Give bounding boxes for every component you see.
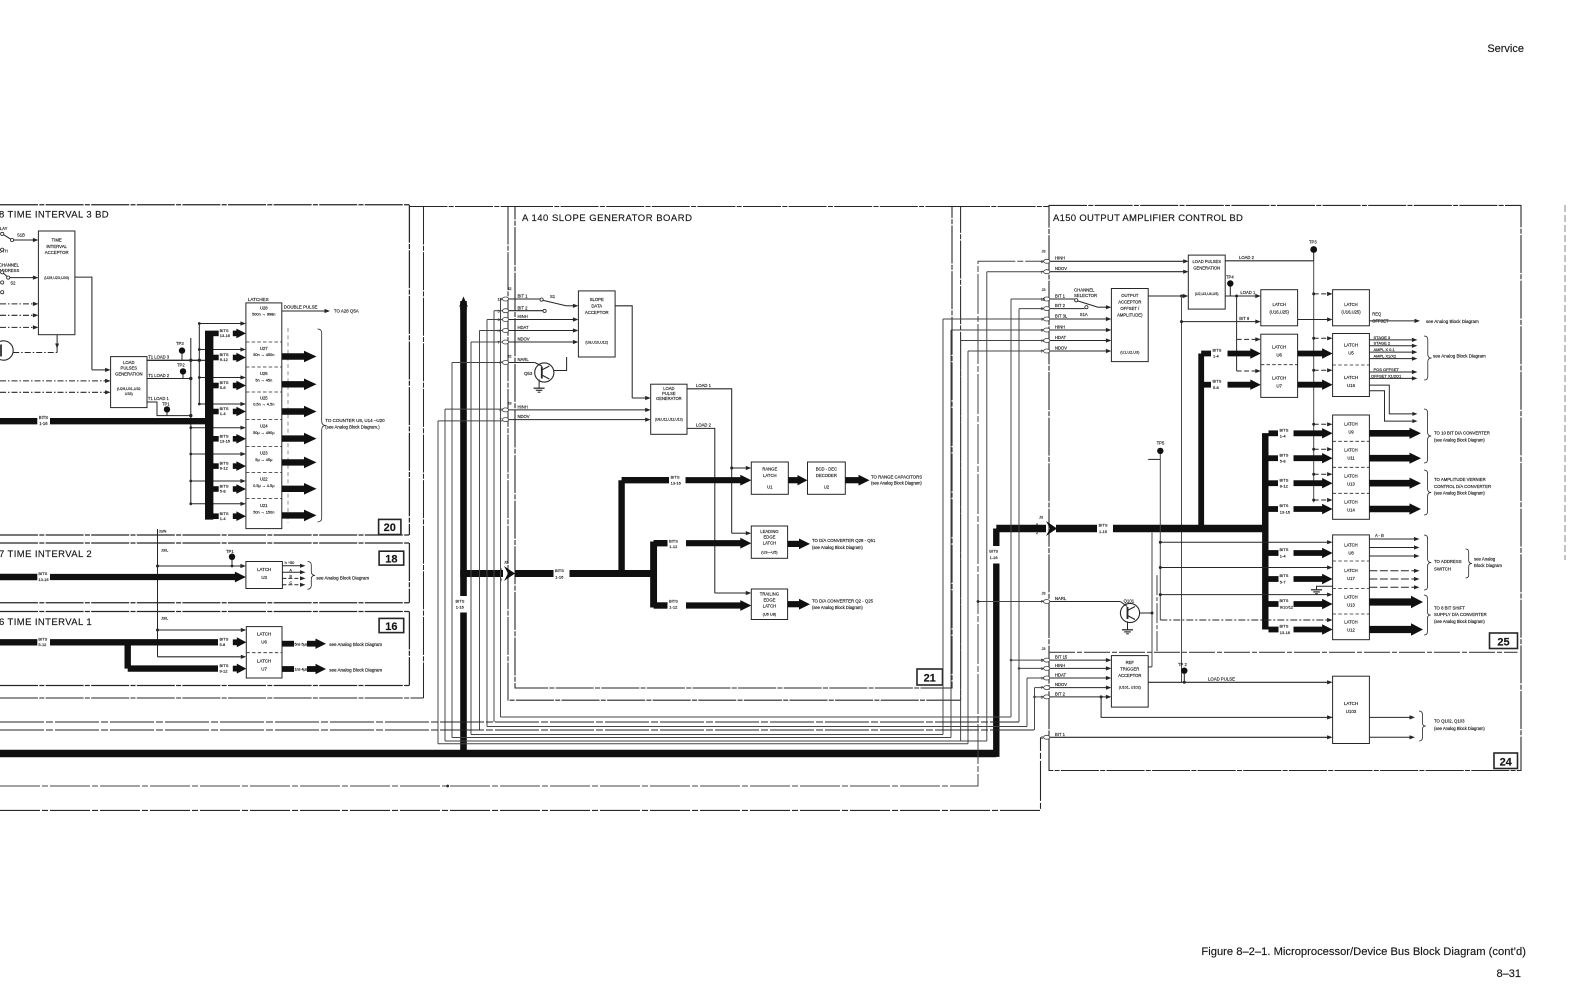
enable stub from TP3 rail — [1314, 293, 1328, 295]
latch U9 U11 outputs to 10 bit DAC — [1369, 430, 1411, 437]
brace TO 10 BIT D/A CONVERTER — [1424, 409, 1431, 463]
bus riser to range latch — [618, 480, 624, 576]
svg-text:BITS: BITS — [1280, 428, 1289, 433]
svg-text:5: 5 — [1041, 307, 1043, 311]
svg-text:1-16: 1-16 — [456, 605, 465, 610]
svg-text:1-16: 1-16 — [1099, 529, 1108, 534]
svg-text:(U3—U5): (U3—U5) — [761, 550, 778, 555]
svg-text:EDGE: EDGE — [764, 597, 776, 602]
svg-text:20: 20 — [384, 522, 396, 534]
svg-text:STAGE 2: STAGE 2 — [1374, 341, 1391, 346]
test point TP2 — [180, 368, 186, 374]
svg-text:1-4: 1-4 — [1213, 354, 1220, 359]
svg-text:1-4: 1-4 — [220, 411, 227, 416]
svg-text:6: 6 — [1041, 667, 1043, 671]
svg-text:(see Analog Block Diagram): (see Analog Block Diagram) — [871, 481, 922, 486]
latch output thick arrows to counter — [287, 328, 289, 523]
svg-text:J3: J3 — [1042, 250, 1046, 254]
right page margin line — [1564, 205, 1566, 560]
bus riser to edge latches — [650, 542, 657, 608]
svg-text:(see Analog Block Diagram): (see Analog Block Diagram) — [1434, 619, 1485, 624]
svg-text:SLOPE: SLOPE — [590, 297, 604, 302]
svg-text:TO COUNTER U8, U14 –U20: TO COUNTER U8, U14 –U20 — [325, 418, 385, 423]
svg-text:U11: U11 — [1347, 456, 1355, 461]
svg-text:SELECTOR: SELECTOR — [1074, 293, 1097, 298]
svg-text:U103: U103 — [1346, 709, 1357, 714]
svg-text:(U29,U31,U32: (U29,U31,U32 — [117, 387, 141, 391]
svg-text:J3: J3 — [508, 402, 512, 406]
svg-text:J3/L: J3/L — [161, 549, 168, 553]
svg-text:(U8,U10,U12): (U8,U10,U12) — [585, 340, 608, 344]
svg-text:LATCH: LATCH — [1344, 422, 1357, 427]
svg-text:J3: J3 — [1039, 516, 1043, 520]
svg-text:BIT 1: BIT 1 — [1055, 732, 1066, 737]
nested frame around A140 — [508, 207, 961, 701]
svg-text:J3: J3 — [1042, 592, 1046, 596]
wire Q101 collector to ref trigger acceptor — [1140, 612, 1152, 614]
svg-text:RANGE: RANGE — [762, 467, 777, 472]
svg-text:U2: U2 — [824, 485, 830, 490]
svg-text:(U101, U102): (U101, U102) — [1119, 685, 1141, 689]
svg-text:Q101: Q101 — [1124, 598, 1135, 603]
svg-text:(U29,U23,U30): (U29,U23,U30) — [44, 276, 69, 280]
bottom horizontal wires — [501, 716, 1012, 718]
svg-text:SUPPLY D/A CONVERTER: SUPPLY D/A CONVERTER — [1434, 612, 1487, 617]
svg-text:5-8: 5-8 — [1213, 385, 1220, 390]
svg-text:BITS: BITS — [989, 549, 998, 554]
section number box 16 — [379, 618, 404, 632]
svg-text:1-4: 1-4 — [220, 516, 227, 521]
bus branch BITS 9-12 into latch — [213, 355, 219, 361]
svg-text:LATCH: LATCH — [1272, 344, 1286, 349]
svg-text:U13: U13 — [1347, 602, 1355, 607]
svg-text:NDOV: NDOV — [518, 414, 530, 419]
svg-text:NARL: NARL — [1055, 596, 1067, 601]
switch S1 — [509, 298, 540, 300]
svg-text:(see Analog Block Diagram): (see Analog Block Diagram) — [1434, 438, 1485, 443]
block LATCH U16 U25 second — [1333, 290, 1370, 326]
svg-text:A 140 SLOPE GENERATOR BOAR: A 140 SLOPE GENERATOR BOARD — [522, 213, 692, 224]
board A1x7 TIME INTERVAL 2 outline — [0, 542, 409, 544]
block REF TRIGGER ACCEPTOR U101 U102 — [1111, 656, 1148, 708]
svg-text:HINH: HINH — [518, 314, 528, 319]
svg-text:see Analog Block Diagram: see Analog Block Diagram — [316, 575, 369, 580]
svg-text:see Analog Block Diagram: see Analog Block Diagram — [329, 642, 382, 647]
bus branch BITS 13-16 to range latch — [622, 477, 669, 483]
block RANGE LATCH U1 — [751, 462, 788, 494]
stubs to ref trigger pins — [1011, 659, 1044, 661]
svg-text:15: 15 — [1041, 298, 1045, 302]
svg-text:U21: U21 — [260, 503, 268, 508]
svg-text:LATCH: LATCH — [257, 567, 271, 572]
svg-text:LATCH: LATCH — [1344, 542, 1357, 547]
svg-text:HDAT: HDAT — [1055, 673, 1067, 678]
svg-text:U3: U3 — [261, 575, 267, 580]
svg-text:BIT 3L: BIT 3L — [1055, 314, 1068, 319]
test point TP4 — [1227, 280, 1233, 286]
svg-text:BIT 2: BIT 2 — [1055, 692, 1066, 697]
right wire bundle verticals — [942, 319, 944, 735]
block TRAILING EDGE LATCH U6-U8 — [751, 589, 787, 620]
svg-text:LATCH: LATCH — [1344, 448, 1357, 453]
svg-text:Q53: Q53 — [524, 371, 533, 376]
svg-text:TO Q102, Q103: TO Q102, Q103 — [1434, 718, 1465, 723]
brace outputs TO COUNTER U8 U14-U20 — [318, 329, 326, 522]
left wire bundle verticals — [500, 299, 502, 717]
svg-text:BITS: BITS — [669, 599, 678, 604]
svg-text:NDOV: NDOV — [518, 337, 530, 342]
latch enable distribution wires — [198, 324, 200, 405]
section 25 inner frame — [1156, 575, 1158, 652]
svg-text:REQ: REQ — [1372, 312, 1381, 317]
svg-text:BIT 2: BIT 2 — [518, 305, 529, 310]
ground below Q53 — [538, 379, 540, 388]
svg-text:DOUBLE PULSE: DOUBLE PULSE — [284, 304, 318, 309]
transistor Q101 — [1120, 603, 1139, 622]
wires latch U16 to 10 bit converter group — [1369, 385, 1413, 414]
svg-text:7: 7 — [1041, 270, 1043, 274]
svg-text:(U16,U25): (U16,U25) — [1270, 310, 1290, 315]
block LATCH U103 — [1333, 676, 1370, 743]
svg-text:BITS: BITS — [1099, 523, 1108, 528]
svg-text:U7: U7 — [261, 667, 267, 672]
svg-text:BITS: BITS — [555, 568, 564, 573]
svg-text:5-8: 5-8 — [1280, 459, 1287, 464]
svg-text:ACCEPTOR: ACCEPTOR — [1118, 300, 1141, 305]
svg-text:CHANNEL: CHANNEL — [0, 263, 20, 268]
bus trailing edge latch output TO D/A CONVERTER Q2-Q25 — [788, 601, 801, 607]
top frame connector segments — [409, 206, 515, 208]
svg-text:HDAT: HDAT — [518, 325, 530, 330]
svg-text:TP5: TP5 — [1157, 441, 1165, 446]
bus branch down to latch U7 — [124, 642, 130, 668]
svg-text:TP1: TP1 — [162, 402, 170, 407]
block TIME INTERVAL ACCEPTOR U29 U23 U30 — [38, 231, 75, 335]
transistor Q53 — [535, 363, 554, 382]
block OUTPUT ACCEPTOR OFFSET AMPLITUDE U1 U2 U3 — [1111, 289, 1148, 362]
svg-text:9-12: 9-12 — [220, 466, 229, 471]
svg-text:SWITCH: SWITCH — [1434, 567, 1451, 572]
svg-text:J3: J3 — [1042, 647, 1046, 651]
svg-text:U14: U14 — [1347, 508, 1355, 513]
svg-text:1-16: 1-16 — [990, 555, 999, 560]
enable wires into latches U6 U7 — [158, 629, 242, 631]
svg-text:T1 LOAD 1: T1 LOAD 1 — [148, 396, 170, 401]
latch feed vertical bus — [205, 331, 213, 520]
svg-text:(U1,U2,U3): (U1,U2,U3) — [1120, 351, 1140, 355]
svg-text:U33): U33) — [125, 392, 133, 396]
svg-text:DECODER: DECODER — [816, 473, 837, 478]
svg-text:NDOV: NDOV — [1055, 682, 1067, 687]
svg-text:OFFSET /: OFFSET / — [1120, 306, 1140, 311]
svg-text:see Analog Block Diagram: see Analog Block Diagram — [1433, 354, 1486, 359]
bus BITS 1-16 into latch column — [0, 418, 37, 424]
board A150 OUTPUT AMPLIFIER CONTROL outline — [1049, 205, 1521, 770]
wire NARL return line — [0, 261, 1044, 786]
svg-text:LOAD PULSE: LOAD PULSE — [1208, 676, 1235, 681]
svg-text:(U2,U3,U4,U5): (U2,U3,U4,U5) — [1195, 292, 1219, 296]
svg-text:U22: U22 — [260, 477, 268, 482]
vertical bus BITS 1-16 between boards — [460, 301, 467, 596]
svg-text:U17: U17 — [1347, 576, 1355, 581]
svg-text:OFFSET X1/2Q1: OFFSET X1/2Q1 — [1371, 373, 1402, 378]
svg-text:LATCH: LATCH — [1344, 474, 1357, 479]
svg-text:J3: J3 — [1042, 288, 1046, 292]
svg-text:U9: U9 — [1348, 430, 1354, 435]
ground stub at latch U17 — [1317, 586, 1333, 590]
svg-text:BITS: BITS — [220, 663, 229, 668]
svg-text:S1A: S1A — [1080, 312, 1088, 317]
svg-text:TP4: TP4 — [1226, 275, 1234, 280]
svg-text:U6: U6 — [261, 640, 267, 645]
svg-text:GENERATION: GENERATION — [1193, 265, 1220, 270]
svg-text:TIME: TIME — [52, 238, 62, 243]
bus branch BITS 5-8 into latch — [213, 486, 219, 492]
svg-text:A150 OUTPUT AMPLIFIER CONTR: A150 OUTPUT AMPLIFIER CONTROL BD — [1053, 213, 1243, 224]
svg-text:LOAD 1: LOAD 1 — [696, 383, 712, 388]
svg-text:DATA: DATA — [591, 304, 602, 309]
svg-text:TRAILING: TRAILING — [760, 592, 779, 597]
svg-text:CHANNEL: CHANNEL — [1074, 288, 1095, 293]
svg-text:50n → 450n: 50n → 450n — [253, 352, 274, 357]
wire S2 to acceptor — [10, 277, 34, 279]
svg-text:HINH: HINH — [1055, 663, 1065, 668]
block LATCH U9 U11 U13 U14 column — [1333, 415, 1370, 519]
svg-text:TP3: TP3 — [176, 341, 184, 346]
wires into output acceptor — [1050, 318, 1107, 320]
svg-text:S1: S1 — [550, 294, 556, 299]
svg-text:5-8: 5-8 — [220, 489, 227, 494]
svg-text:h ÷50: h ÷50 — [285, 560, 296, 565]
svg-text:13-16: 13-16 — [220, 438, 231, 443]
wire bus inputs into acceptor — [0, 303, 34, 305]
svg-text:LATCH: LATCH — [763, 541, 776, 546]
test point TP3 — [179, 347, 185, 353]
brace TO 8 BIT SHIFT SUPPLY — [1424, 595, 1431, 635]
svg-text:PULSES: PULSES — [121, 366, 138, 371]
bus branch BITS 1-12 to leading edge latch — [654, 540, 668, 546]
svg-text:HDAT: HDAT — [1055, 335, 1067, 340]
svg-text:AMPLITUDE): AMPLITUDE) — [1117, 313, 1143, 318]
svg-text:15: 15 — [498, 298, 502, 302]
svg-text:LATCHES: LATCHES — [248, 297, 269, 302]
board A1x6 TIME INTERVAL 1 outline — [0, 611, 409, 613]
svg-text:LOAD 2: LOAD 2 — [696, 423, 712, 428]
svg-text:LATCH: LATCH — [257, 659, 271, 664]
section number box 25 — [1490, 633, 1518, 649]
svg-text:J2: J2 — [508, 355, 512, 359]
svg-text:see Analog Block Diagram: see Analog Block Diagram — [329, 667, 382, 672]
svg-text:NDOV: NDOV — [1055, 346, 1067, 351]
svg-text:HINH: HINH — [1055, 255, 1065, 260]
svg-text:(U6 U8): (U6 U8) — [763, 611, 777, 616]
svg-text:U16: U16 — [1347, 383, 1356, 388]
svg-text:U24: U24 — [260, 423, 268, 428]
bus riser right of A140 — [993, 529, 999, 547]
svg-text:LOAD 1: LOAD 1 — [1240, 290, 1256, 295]
section number box 18 — [379, 551, 404, 565]
test point TP1 board 18 — [229, 554, 235, 560]
svg-text:LATCH: LATCH — [763, 603, 776, 608]
svg-text:1-4: 1-4 — [1280, 553, 1287, 558]
svg-text:BITS: BITS — [38, 637, 47, 642]
svg-text:BITS: BITS — [1280, 477, 1289, 482]
svg-text:T1 LOAD 3: T1 LOAD 3 — [148, 355, 170, 360]
svg-text:HINH: HINH — [518, 404, 528, 409]
svg-text:7 TIME INTERVAL 2: 7 TIME INTERVAL 2 — [0, 549, 92, 560]
svg-text:BITS: BITS — [1280, 573, 1289, 578]
svg-text:LOAD PULSES: LOAD PULSES — [1193, 259, 1222, 264]
svg-text:13-16: 13-16 — [671, 481, 682, 486]
svg-text:U28: U28 — [260, 306, 268, 311]
svg-text:TO ADDRESS: TO ADDRESS — [1434, 559, 1462, 564]
wire enable to latch U3 — [158, 565, 242, 567]
svg-text:13-16: 13-16 — [220, 333, 231, 338]
bus branches BITS into U8 U17 U13 U12 — [1269, 550, 1279, 556]
svg-text:TO 8 BIT SHIFT: TO 8 BIT SHIFT — [1434, 605, 1465, 610]
svg-text:9-12: 9-12 — [220, 669, 229, 674]
svg-text:A - B: A - B — [1375, 533, 1384, 538]
bus branch BITS 1-4 into latch — [213, 409, 219, 415]
svg-text:LATCH: LATCH — [1344, 342, 1358, 347]
svg-text:(see Analog Block Diagram.): (see Analog Block Diagram.) — [325, 425, 380, 430]
bus branch BITS 9-12 into latch — [213, 463, 219, 469]
svg-text:LATCH: LATCH — [1272, 302, 1285, 307]
svg-text:LATCH: LATCH — [1344, 594, 1357, 599]
svg-text:6 TIME INTERVAL 1: 6 TIME INTERVAL 1 — [0, 617, 92, 628]
svg-text:16: 16 — [385, 621, 397, 633]
svg-text:see Analog Block Diagram: see Analog Block Diagram — [1426, 319, 1479, 324]
svg-text:TO A28 Q5A: TO A28 Q5A — [334, 309, 359, 314]
svg-text:5: 5 — [1041, 696, 1043, 700]
latch U103 outputs TO Q102 Q103 — [1369, 716, 1410, 718]
latch U13 U12 outputs to 8 bit shift supply DAC — [1369, 598, 1413, 605]
block BCD-DEC DECODER U2 — [808, 462, 846, 494]
board A1x8 TIME INTERVAL 3 outline — [0, 204, 409, 206]
svg-text:7: 7 — [498, 341, 500, 345]
svg-text:U23: U23 — [260, 451, 268, 456]
svg-text:J3: J3 — [504, 561, 508, 565]
svg-text:13-16: 13-16 — [1280, 509, 1291, 514]
vertical thick bus 2 — [1262, 433, 1268, 629]
brace outputs board 18 — [308, 562, 316, 590]
svg-text:50μ → 490μ: 50μ → 490μ — [253, 430, 274, 435]
block LATCH U16 U25 first — [1261, 290, 1298, 326]
enable stubs from TP3 rail into U5 U16 — [1314, 337, 1328, 339]
svg-text:STAGE 3: STAGE 3 — [1374, 335, 1391, 340]
svg-text:ACCEPTOR: ACCEPTOR — [585, 310, 609, 315]
svg-text:A: A — [289, 567, 292, 572]
svg-text:U12: U12 — [1347, 627, 1355, 632]
wire acceptor bottom to transistor — [56, 335, 58, 353]
wire BIT1 return line — [0, 737, 1041, 810]
wire S1B to acceptor — [14, 239, 34, 241]
svg-text:(see Analog Block Diagram): (see Analog Block Diagram) — [1434, 726, 1485, 731]
svg-text:U13: U13 — [1347, 482, 1355, 487]
main bus junction riser — [1262, 433, 1268, 525]
svg-text:BITS: BITS — [1280, 598, 1289, 603]
board A140 SLOPE GENERATOR outline — [515, 207, 952, 689]
svg-text:U8: U8 — [1348, 550, 1354, 555]
svg-text:OUTPUT: OUTPUT — [1121, 293, 1139, 298]
enable stubs from TP3 rail into U9 column — [1314, 423, 1328, 425]
svg-text:LATCH: LATCH — [1344, 619, 1357, 624]
svg-text:LEADING: LEADING — [760, 529, 778, 534]
svg-text:U5: U5 — [1348, 350, 1354, 355]
ground below Q101 — [1127, 621, 1129, 629]
svg-text:TO D/A CONVERTER Q28 - Q51: TO D/A CONVERTER Q28 - Q51 — [812, 538, 876, 543]
svg-text:S1B: S1B — [17, 233, 25, 238]
svg-text:AMPL X 0.1: AMPL X 0.1 — [1374, 347, 1396, 352]
svg-text:see Analog: see Analog — [1474, 556, 1496, 561]
svg-text:5-8: 5-8 — [220, 642, 227, 647]
svg-text:BIT 15: BIT 15 — [1055, 655, 1068, 660]
svg-text:REF: REF — [1126, 660, 1135, 665]
svg-text:BITS: BITS — [1213, 348, 1222, 353]
bus decoder output TO RANGE CAPACITORS — [845, 477, 860, 483]
wires into load pulses generation — [0, 380, 106, 382]
bus branch into A140 — [460, 570, 503, 577]
section number box 24 — [1494, 753, 1518, 769]
svg-text:S2: S2 — [10, 281, 16, 286]
bus branch BITS 5-8 into latch U7 — [1204, 382, 1211, 388]
svg-text:5: 5 — [498, 309, 500, 313]
svg-text:NDOV: NDOV — [1055, 266, 1067, 271]
block LATCH U6 / LATCH U7 — [1261, 334, 1298, 397]
svg-text:6: 6 — [498, 318, 500, 322]
svg-text:H: H — [1041, 339, 1044, 343]
svg-text:GENERATION: GENERATION — [115, 372, 142, 377]
svg-text:LATCH: LATCH — [257, 632, 271, 637]
svg-text:0.5n → 4.5n: 0.5n → 4.5n — [253, 402, 274, 407]
bus branch BITS 1-12 to trailing edge latch — [654, 602, 668, 608]
svg-text:J2: J2 — [508, 287, 512, 291]
svg-text:TP2: TP2 — [177, 362, 185, 367]
svg-text:9/10/12: 9/10/12 — [1280, 604, 1294, 609]
svg-text:LATCH: LATCH — [1344, 701, 1358, 706]
wire BIT2 loop to latch U103 — [1101, 697, 1333, 718]
test point TP3 — [1310, 246, 1317, 253]
svg-text:(U16,U25): (U16,U25) — [1341, 310, 1361, 315]
svg-text:TP 2: TP 2 — [1178, 662, 1187, 667]
svg-text:EDGE: EDGE — [764, 535, 776, 540]
svg-text:TRIGGER: TRIGGER — [1120, 667, 1139, 672]
brace TO ADDRESS SWITCH — [1424, 535, 1431, 590]
svg-text:LATCH: LATCH — [1344, 375, 1358, 380]
svg-text:DELAY: DELAY — [0, 226, 8, 231]
svg-text:LOAD: LOAD — [123, 360, 134, 365]
svg-text:BITS: BITS — [39, 415, 49, 420]
svg-text:BIT 9: BIT 9 — [1239, 316, 1250, 321]
block LATCH U3 — [246, 562, 283, 589]
wire latch to latch — [1298, 319, 1329, 321]
svg-text:500n → 998n: 500n → 998n — [252, 312, 275, 317]
bus BITS 13-16 into latch U3 — [0, 574, 37, 580]
bus BITS 5-12 into latches — [0, 639, 37, 645]
svg-text:21: 21 — [924, 673, 936, 685]
svg-text:5-12: 5-12 — [38, 642, 47, 647]
bottom thick bus — [0, 750, 996, 758]
bus branch BITS 13-16 into latch — [213, 331, 219, 337]
svg-text:CONTROL D/A CONVERTER: CONTROL D/A CONVERTER — [1434, 484, 1491, 489]
svg-text:24: 24 — [1500, 757, 1513, 769]
block LATCH U5 / LATCH U16 — [1333, 334, 1370, 397]
svg-text:25: 25 — [1497, 637, 1509, 649]
svg-text:(see Analog Block Diagram): (see Analog Block Diagram) — [1434, 491, 1485, 496]
svg-text:J3/L: J3/L — [161, 617, 168, 621]
svg-text:5n → 45n: 5n → 45n — [255, 377, 272, 382]
svg-text:18: 18 — [385, 553, 397, 565]
